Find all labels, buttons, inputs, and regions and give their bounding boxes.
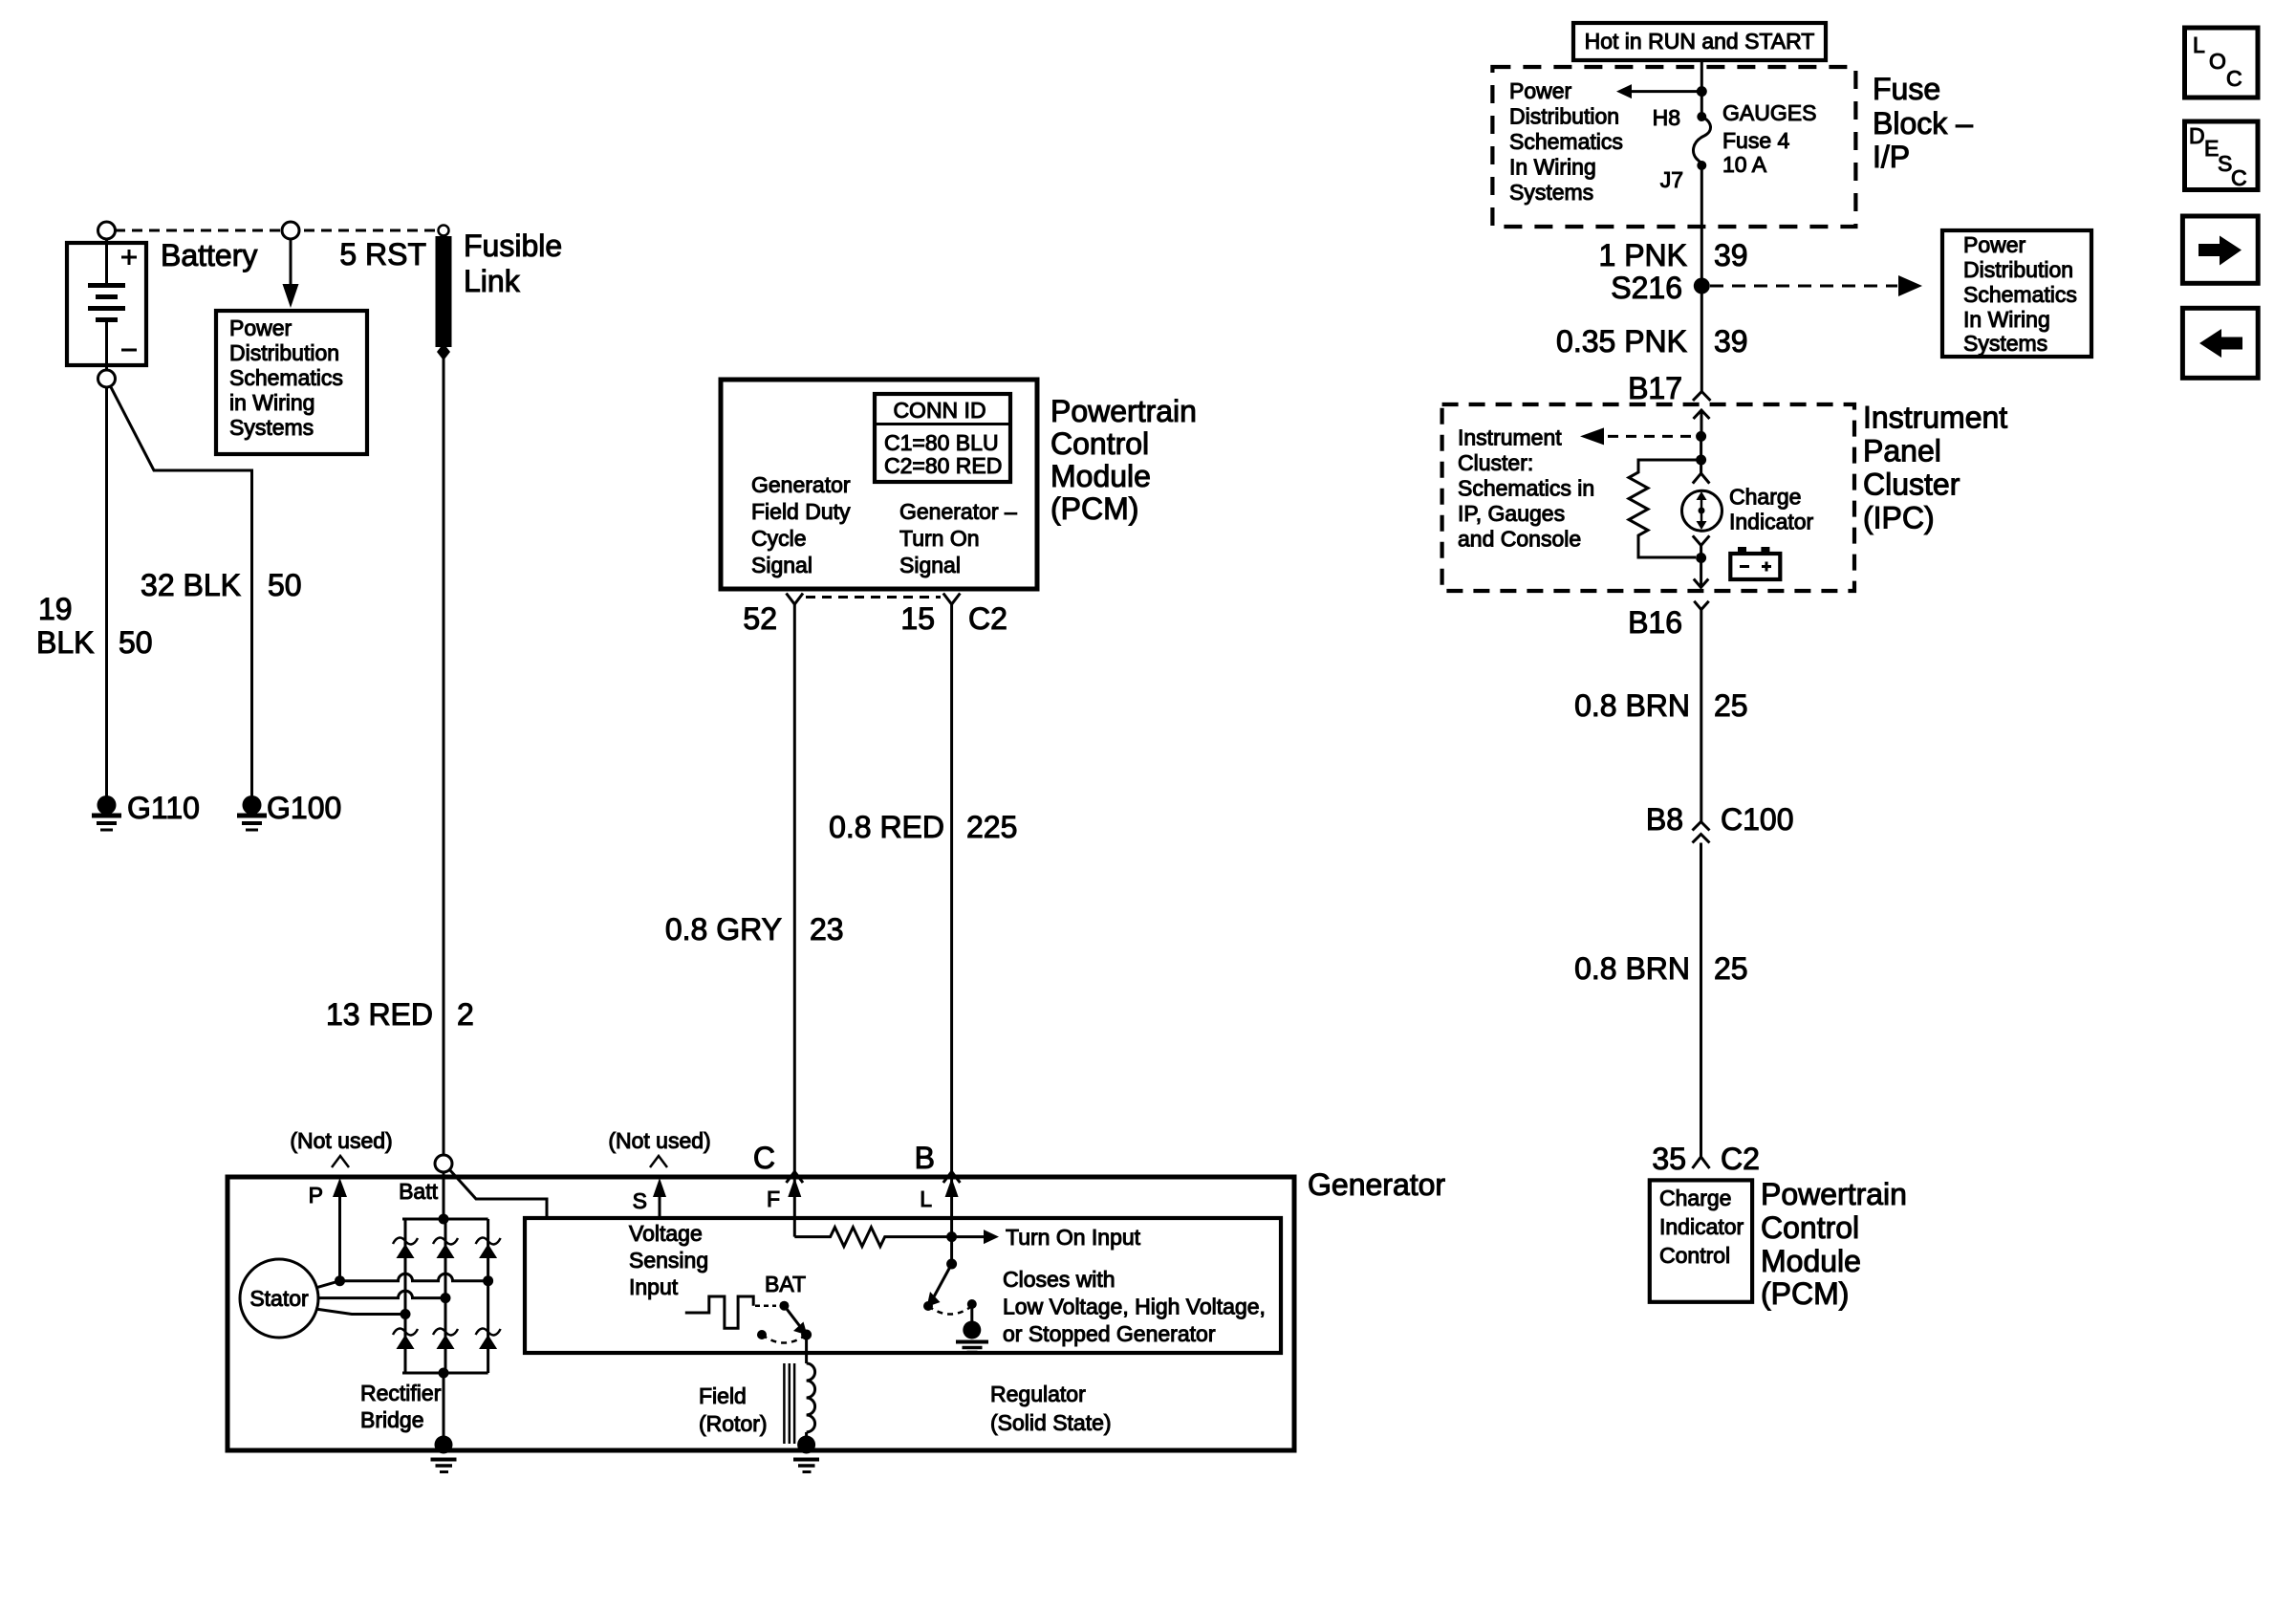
svg-text:Cluster:: Cluster: — [1458, 450, 1533, 475]
fuse block dashed box — [1492, 67, 1855, 227]
resistor (IPC) — [1629, 460, 1701, 557]
svg-text:(Solid State): (Solid State) — [990, 1410, 1112, 1435]
svg-text:and Console: and Console — [1458, 527, 1581, 552]
diode lower middle — [433, 1329, 458, 1349]
svg-text:Control: Control — [1659, 1243, 1730, 1268]
dashed arrow S216 to power distribution — [1710, 285, 1897, 288]
wire dashed battery to fusible link — [115, 229, 435, 232]
svg-text:H8: H8 — [1653, 105, 1680, 130]
label Instrument Cluster: Schematics in IP, Gauges and Console — [1458, 425, 1594, 552]
svg-text:Charge: Charge — [1729, 485, 1801, 510]
svg-text:Generator –: Generator – — [899, 499, 1017, 524]
diode upper right — [476, 1238, 501, 1258]
svg-text:in Wiring: in Wiring — [229, 390, 314, 415]
terminal S arrow — [659, 1193, 661, 1218]
branch arrow to power distribution — [1616, 84, 1707, 98]
svg-text:C2=80 RED: C2=80 RED — [884, 453, 1002, 478]
svg-text:IP, Gauges: IP, Gauges — [1458, 501, 1565, 526]
battery icon (IPC) — [1730, 547, 1780, 579]
svg-text:Power: Power — [229, 316, 292, 340]
label Generator Turn On Signal — [899, 499, 1017, 577]
svg-text:Systems: Systems — [229, 415, 314, 440]
terminal L — [950, 1172, 953, 1265]
resistor turn-on — [794, 1228, 999, 1247]
Hot in RUN and START box — [1573, 23, 1826, 60]
PCM box U1 — [721, 380, 1037, 589]
svg-text:Powertrain: Powertrain — [1761, 1177, 1907, 1211]
CONN ID table — [875, 394, 1010, 482]
svg-text:(Not used): (Not used) — [290, 1128, 392, 1153]
svg-text:39: 39 — [1714, 324, 1748, 359]
svg-text:225: 225 — [966, 810, 1017, 844]
wire rectifier to ground — [443, 1373, 445, 1446]
svg-text:Battery: Battery — [161, 238, 257, 272]
svg-text:BLK: BLK — [36, 625, 94, 660]
arrow into IPC — [1694, 410, 1710, 419]
svg-text:Rectifier: Rectifier — [360, 1381, 442, 1405]
svg-text:or Stopped Generator: or Stopped Generator — [1003, 1321, 1216, 1346]
svg-text:In Wiring: In Wiring — [1509, 155, 1596, 180]
terminal B connector — [943, 1172, 961, 1184]
stator — [240, 1259, 318, 1338]
wire 0.8 RED pin 15 to terminal B — [950, 604, 953, 1172]
label GAUGES Fuse 4 10 A — [1722, 100, 1816, 177]
ground rectifier bridge — [431, 1436, 457, 1472]
diode lower left — [393, 1329, 418, 1349]
svg-text:Regulator: Regulator — [990, 1382, 1086, 1406]
label Fuse Block I/P — [1873, 72, 1973, 174]
svg-text:Instrument: Instrument — [1863, 401, 2007, 435]
svg-text:G100: G100 — [267, 791, 341, 825]
svg-text:G110: G110 — [127, 791, 200, 825]
label Voltage Sensing Input — [629, 1221, 708, 1299]
svg-text:5 RST: 5 RST — [339, 237, 426, 272]
svg-text:Hot in RUN and START: Hot in RUN and START — [1585, 29, 1815, 54]
label Powertrain Control Module (PCM) (right) — [1761, 1177, 1907, 1311]
ground G110 — [92, 795, 121, 830]
corner icon arrow left — [2182, 308, 2258, 378]
generator box — [227, 1177, 1294, 1450]
diode upper left — [393, 1238, 418, 1258]
svg-text:Voltage: Voltage — [629, 1221, 703, 1246]
label Charge Indicator Control — [1659, 1186, 1744, 1268]
connector C100 — [1693, 822, 1710, 843]
svg-text:Power: Power — [1963, 232, 2026, 257]
svg-text:23: 23 — [810, 912, 844, 947]
svg-text:0.8 RED: 0.8 RED — [829, 810, 944, 844]
PCM box (right) — [1650, 1180, 1752, 1301]
svg-text:Powertrain: Powertrain — [1051, 394, 1197, 428]
svg-text:C100: C100 — [1721, 802, 1794, 837]
svg-text:F: F — [767, 1186, 780, 1211]
svg-text:2: 2 — [457, 997, 474, 1032]
label Powertrain Control Module (PCM) — [1051, 394, 1197, 526]
svg-text:Batt: Batt — [399, 1179, 439, 1204]
stator phase wire 3 — [315, 1309, 411, 1319]
svg-text:Module: Module — [1761, 1244, 1861, 1278]
svg-text:35: 35 — [1652, 1142, 1686, 1176]
junction lamp bottom — [1696, 553, 1706, 563]
svg-text:0.35 PNK: 0.35 PNK — [1556, 324, 1687, 359]
svg-text:Charge: Charge — [1659, 1186, 1731, 1210]
svg-text:Turn On Input: Turn On Input — [1006, 1225, 1141, 1250]
svg-text:In Wiring: In Wiring — [1963, 307, 2050, 332]
wire fuse to IPC — [1700, 165, 1703, 392]
svg-text:Signal: Signal — [751, 553, 812, 577]
svg-text:(Not used): (Not used) — [608, 1128, 710, 1153]
junction and dashed arrow to Instrument — [1696, 431, 1706, 442]
svg-text:Signal: Signal — [899, 553, 961, 577]
svg-text:Control: Control — [1051, 426, 1149, 461]
wire Batt into rectifier — [443, 1172, 445, 1219]
wire junction to resistor branch — [1700, 436, 1702, 473]
svg-text:C2: C2 — [968, 601, 1007, 636]
rectifier bridge — [402, 1214, 488, 1379]
svg-text:Generator: Generator — [1308, 1167, 1445, 1202]
reference box Power Distribution Schematics in Wiring Systems (left) — [216, 311, 367, 454]
dashed connector line between pins — [806, 596, 941, 599]
svg-text:B: B — [915, 1141, 935, 1175]
terminal F — [793, 1172, 796, 1237]
wire hot to fuse — [1700, 60, 1703, 117]
svg-text:Stator: Stator — [249, 1286, 309, 1311]
svg-text:52: 52 — [743, 601, 777, 636]
svg-text:Field: Field — [699, 1383, 747, 1408]
fusible link F1 — [436, 226, 452, 361]
svg-text:Generator: Generator — [751, 472, 851, 497]
svg-text:Field Duty: Field Duty — [751, 499, 851, 524]
svg-text:0.8 BRN: 0.8 BRN — [1574, 951, 1690, 986]
svg-text:Panel: Panel — [1863, 434, 1941, 468]
stator phase wire 1 — [316, 1274, 493, 1288]
svg-text:Indicator: Indicator — [1659, 1214, 1744, 1239]
regulator box — [525, 1218, 1281, 1353]
svg-text:39: 39 — [1714, 238, 1748, 272]
svg-text:Control: Control — [1761, 1210, 1859, 1245]
svg-text:Fusible: Fusible — [464, 229, 562, 263]
ground field — [793, 1436, 819, 1472]
svg-text:Distribution: Distribution — [1509, 104, 1619, 129]
IPC dashed box — [1442, 404, 1854, 591]
svg-text:D: D — [2189, 123, 2205, 148]
reference box Power Distribution Schematics In Wiring Systems (right) — [1942, 230, 2091, 357]
label Closes with Low Voltage, High Voltage, or Stopped Generator — [1003, 1267, 1266, 1346]
svg-text:Turn On: Turn On — [899, 526, 980, 551]
connector B16 — [1694, 601, 1708, 610]
charge indicator lamp — [1682, 473, 1722, 557]
svg-text:0.8 BRN: 0.8 BRN — [1574, 688, 1690, 723]
battery B1 — [67, 222, 146, 387]
svg-text:Schematics in: Schematics in — [1458, 476, 1594, 501]
corner icon DESC — [2185, 121, 2259, 190]
svg-text:Power: Power — [1509, 78, 1572, 103]
svg-text:GAUGES: GAUGES — [1722, 100, 1816, 125]
svg-text:32 BLK: 32 BLK — [141, 568, 241, 602]
connector PCM pin 35 — [1693, 1157, 1710, 1168]
svg-text:50: 50 — [119, 625, 153, 660]
Batt terminal circle — [435, 1155, 452, 1172]
svg-text:Cycle: Cycle — [751, 526, 807, 551]
svg-text:B8: B8 — [1646, 802, 1683, 837]
svg-text:Instrument: Instrument — [1458, 425, 1562, 450]
svg-text:Schematics: Schematics — [1963, 282, 2077, 307]
svg-text:Distribution: Distribution — [1963, 257, 2073, 282]
corner icon LOC — [2185, 28, 2259, 98]
svg-text:L: L — [920, 1186, 932, 1211]
svg-text:Schematics: Schematics — [229, 365, 343, 390]
svg-text:B17: B17 — [1628, 371, 1682, 405]
svg-text:(PCM): (PCM) — [1761, 1276, 1849, 1311]
svg-text:S: S — [633, 1188, 647, 1213]
svg-text:Fuse: Fuse — [1873, 72, 1940, 106]
wire fusible link to generator Batt — [443, 359, 445, 1155]
svg-text:10 A: 10 A — [1722, 152, 1767, 177]
wire 0.8 GRY pin 52 to terminal C — [793, 604, 796, 1172]
switch L (regulator) — [923, 1259, 988, 1353]
wire battery negative to G100 — [110, 385, 252, 796]
diode upper middle — [433, 1238, 458, 1258]
terminal P arrow — [338, 1193, 341, 1281]
svg-text:Fuse 4: Fuse 4 — [1722, 128, 1790, 153]
svg-text:Cluster: Cluster — [1863, 468, 1960, 502]
svg-text:Distribution: Distribution — [229, 340, 339, 365]
node 5 RST — [282, 222, 299, 308]
terminal C connector — [787, 1172, 804, 1184]
svg-text:Sensing: Sensing — [629, 1248, 708, 1273]
wire battery negative to G110 — [105, 387, 108, 796]
svg-text:C1=80 BLU: C1=80 BLU — [884, 430, 999, 455]
svg-text:L: L — [2193, 33, 2205, 57]
field coil (rotor) — [784, 1335, 814, 1446]
svg-text:Input: Input — [629, 1274, 679, 1299]
svg-text:25: 25 — [1714, 688, 1748, 723]
switch BAT (field) — [757, 1301, 812, 1343]
wire B16 to C100 — [1700, 610, 1702, 822]
fuse GAUGES Fuse 4 10 A — [1693, 112, 1710, 170]
svg-text:25: 25 — [1714, 951, 1748, 986]
svg-text:19: 19 — [38, 592, 73, 626]
svg-text:0.8 GRY: 0.8 GRY — [665, 912, 782, 947]
wire Batt to regulator voltage sense — [449, 1169, 547, 1216]
svg-text:P: P — [309, 1183, 323, 1208]
svg-text:BAT: BAT — [765, 1272, 806, 1296]
arrow out of IPC — [1700, 558, 1702, 588]
reference text Power Distribution Schematics In Wiring Systems (fuse block) — [1509, 78, 1623, 205]
svg-text:C: C — [2226, 66, 2242, 91]
svg-text:B16: B16 — [1628, 605, 1682, 640]
svg-text:Block –: Block – — [1873, 106, 1973, 141]
pin 15 connector — [943, 594, 961, 605]
svg-text:Low Voltage, High Voltage,: Low Voltage, High Voltage, — [1003, 1295, 1266, 1319]
stator phase wire 2 — [318, 1291, 451, 1303]
svg-text:CONN ID: CONN ID — [893, 398, 986, 423]
pin 52 connector — [787, 594, 804, 605]
svg-text:(IPC): (IPC) — [1863, 501, 1935, 535]
svg-text:C: C — [753, 1141, 775, 1175]
svg-text:Link: Link — [464, 264, 521, 298]
svg-text:Closes with: Closes with — [1003, 1267, 1116, 1292]
BAT pulse waveform — [685, 1296, 753, 1328]
connector B17 — [1693, 392, 1711, 402]
svg-text:13 RED: 13 RED — [326, 997, 433, 1032]
svg-text:I/P: I/P — [1873, 140, 1910, 174]
diode lower right — [476, 1329, 501, 1349]
svg-text:1 PNK: 1 PNK — [1599, 238, 1687, 272]
svg-text:Module: Module — [1051, 459, 1151, 493]
wire C100 to PCM — [1700, 843, 1702, 1158]
svg-text:(Rotor): (Rotor) — [699, 1411, 768, 1436]
svg-text:Bridge: Bridge — [360, 1407, 423, 1432]
svg-text:(PCM): (PCM) — [1051, 491, 1138, 526]
svg-text:Indicator: Indicator — [1729, 510, 1814, 534]
svg-text:Systems: Systems — [1509, 180, 1593, 205]
svg-text:J7: J7 — [1660, 167, 1683, 192]
svg-text:S216: S216 — [1611, 271, 1682, 305]
svg-text:Schematics: Schematics — [1509, 129, 1623, 154]
svg-text:C2: C2 — [1721, 1142, 1760, 1176]
label Generator Field Duty Cycle Signal — [751, 472, 851, 577]
svg-text:15: 15 — [900, 601, 935, 636]
svg-text:C: C — [2231, 165, 2247, 190]
corner icon arrow right — [2182, 216, 2258, 283]
label Instrument Panel Cluster (IPC) — [1863, 401, 2007, 535]
svg-text:Systems: Systems — [1963, 331, 2047, 356]
splice S216 — [1694, 278, 1710, 294]
svg-text:O: O — [2209, 49, 2226, 74]
svg-text:50: 50 — [268, 568, 302, 602]
ground G100 — [237, 795, 267, 830]
